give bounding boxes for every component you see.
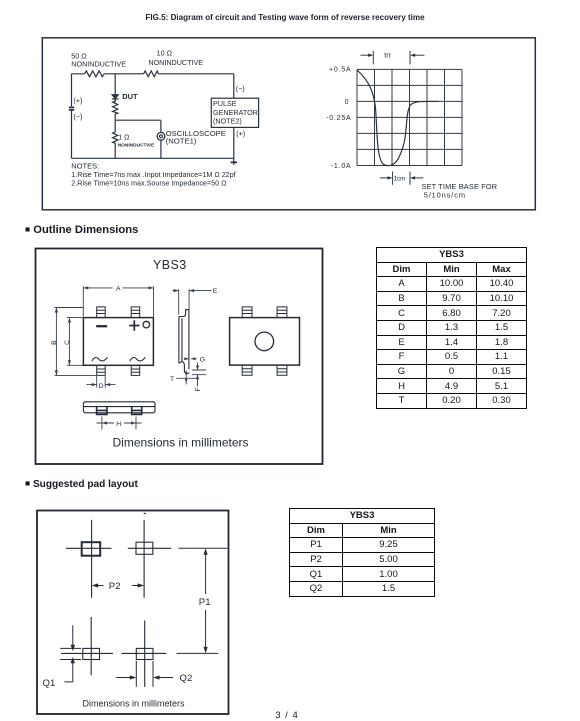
waveform trace [357, 70, 438, 165]
front pin bottom-left [97, 365, 106, 375]
back view circle [255, 332, 274, 351]
svg-text:trr: trr [384, 53, 391, 60]
dim Q1 lines [60, 625, 81, 682]
dim H arrowheads [102, 421, 136, 424]
svg-text:5/10ns/cm: 5/10ns/cm [424, 191, 466, 200]
resistor R 50ohm [85, 71, 105, 77]
dimension table YBS3 (outline) [376, 247, 527, 409]
back pin top-left [242, 307, 252, 318]
front pin top-right [131, 307, 140, 318]
pad top-left [82, 542, 101, 556]
svg-text:NONINDUCTIVE: NONINDUCTIVE [118, 142, 155, 148]
svg-text:0: 0 [345, 99, 349, 106]
svg-text:A: A [116, 285, 121, 292]
svg-text:T: T [170, 376, 174, 383]
svg-text:P1: P1 [199, 597, 211, 608]
arrowheads trr/1cm [368, 54, 373, 57]
pad top-right centerlines [128, 513, 172, 597]
outline figure frame [36, 249, 323, 465]
figure frame [42, 38, 535, 210]
pad top-left centerlines [66, 520, 111, 598]
pad bottom-left [83, 648, 100, 659]
pulse generator box U2 [211, 98, 258, 127]
package back view body [230, 318, 300, 366]
svg-text:NONINDUCTIVE: NONINDUCTIVE [71, 59, 126, 68]
svg-text:10 Ω: 10 Ω [157, 48, 173, 57]
package front view body [83, 318, 153, 366]
front pin top-left [97, 307, 106, 318]
svg-text:Q1: Q1 [43, 678, 56, 689]
svg-text:P2: P2 [109, 581, 121, 592]
dim F lines [192, 363, 207, 387]
dim B arrowheads [55, 308, 58, 376]
svg-text:-0.25A: -0.25A [326, 115, 351, 122]
dim D lines [87, 376, 116, 388]
P2 arrowheads [92, 583, 145, 587]
dim F arrowheads [196, 366, 199, 380]
dim B lines [55, 308, 96, 376]
ac squiggle left [92, 357, 108, 361]
heading: Suggested pad layout [25, 478, 138, 490]
svg-text:1cm: 1cm [394, 175, 406, 182]
back pin top-right [277, 307, 287, 318]
side view profile [179, 310, 190, 374]
svg-text:Q2: Q2 [180, 673, 193, 684]
diode DUT [112, 95, 119, 99]
heading: Outline Dimensions [25, 224, 138, 236]
dim T lines [176, 371, 199, 385]
ground terminal [231, 161, 237, 163]
dim Q2 lines [116, 661, 173, 687]
dim A arrowheads [83, 286, 153, 289]
svg-text:F: F [195, 387, 202, 391]
pad layout table YBS3 [289, 508, 435, 597]
dim C arrowheads [68, 318, 71, 366]
pad bottom-right centerlines [121, 621, 166, 687]
dim G arrowheads [184, 357, 195, 360]
dim H lines [97, 417, 142, 430]
figure title [0, 13, 570, 22]
dim A lines [83, 286, 153, 317]
svg-text:Dimensions in millimeters: Dimensions in millimeters [82, 698, 185, 708]
dim E lines [173, 289, 212, 314]
pad layout frame [37, 511, 229, 715]
wire scope loop [115, 120, 161, 158]
polarity dot circle [143, 321, 150, 328]
wire bottom [72, 157, 234, 159]
dim T arrowheads [185, 371, 188, 383]
svg-text:DUT: DUT [122, 92, 138, 101]
wire top [72, 73, 234, 75]
front pin bottom-right [131, 365, 140, 375]
trr marker ticks [373, 51, 410, 65]
dim E arrowheads [174, 289, 194, 292]
resistor R series [113, 101, 118, 114]
svg-text:D: D [99, 383, 104, 390]
wire left [71, 74, 73, 159]
svg-text:2.Rise Time=10ns max.Sourse Im: 2.Rise Time=10ns max.Sourse Impedance=50… [71, 179, 227, 188]
pad bottom-left centerlines [61, 617, 113, 675]
wire middle branch [114, 74, 116, 159]
svg-text:(+): (+) [236, 129, 245, 138]
back pin bottom-right [277, 365, 287, 375]
trr arrow left [361, 54, 370, 56]
svg-text:(NOTE1): (NOTE1) [166, 137, 197, 146]
plus mark [129, 320, 139, 330]
1cm arrow left [380, 177, 389, 179]
P1 arrowheads [204, 548, 208, 653]
dim G lines [184, 358, 197, 360]
svg-text:(−): (−) [236, 84, 245, 93]
bottom view pin left [97, 407, 107, 415]
dim C lines [67, 318, 83, 366]
svg-text:YBS3: YBS3 [153, 258, 187, 272]
minus mark [96, 325, 107, 327]
svg-text:NONINDUCTIVE: NONINDUCTIVE [148, 58, 203, 67]
pad bottom-right [136, 648, 153, 659]
svg-text:Dimensions in millimeters: Dimensions in millimeters [112, 436, 248, 450]
svg-text:C: C [64, 340, 71, 345]
svg-text:G: G [200, 356, 205, 363]
1cm marker ticks [393, 172, 410, 185]
source V battery [69, 107, 74, 110]
svg-text:-1.0A: -1.0A [331, 163, 352, 170]
bottom view pin right [132, 407, 142, 415]
scope grid [357, 69, 462, 165]
Q1 arrowheads [71, 645, 76, 663]
bottom view bar [83, 402, 155, 413]
ac squiggle right [130, 357, 146, 361]
svg-text:B: B [51, 340, 58, 345]
trr arrow right [414, 54, 424, 56]
dim P1 lines [177, 548, 228, 653]
svg-text:(+): (+) [73, 96, 82, 105]
wire right [233, 74, 235, 165]
svg-text:H: H [116, 421, 121, 428]
svg-text:(NOTE2): (NOTE2) [213, 116, 242, 125]
page number [0, 710, 574, 721]
svg-text:+0.5A: +0.5A [329, 67, 352, 74]
back pin bottom-left [242, 365, 252, 375]
dim P2 lines [95, 585, 142, 587]
svg-text:E: E [213, 288, 218, 295]
dim D arrowheads [92, 383, 111, 386]
resistor R 1ohm [113, 132, 118, 143]
svg-text:(−): (−) [73, 112, 82, 121]
pad top-right [136, 542, 153, 554]
oscilloscope symbol [157, 132, 165, 140]
svg-text:1 Ω: 1 Ω [118, 135, 129, 142]
resistor R 10ohm [144, 71, 159, 77]
Q2 arrowheads [130, 675, 160, 679]
1cm arrow right [414, 177, 423, 179]
